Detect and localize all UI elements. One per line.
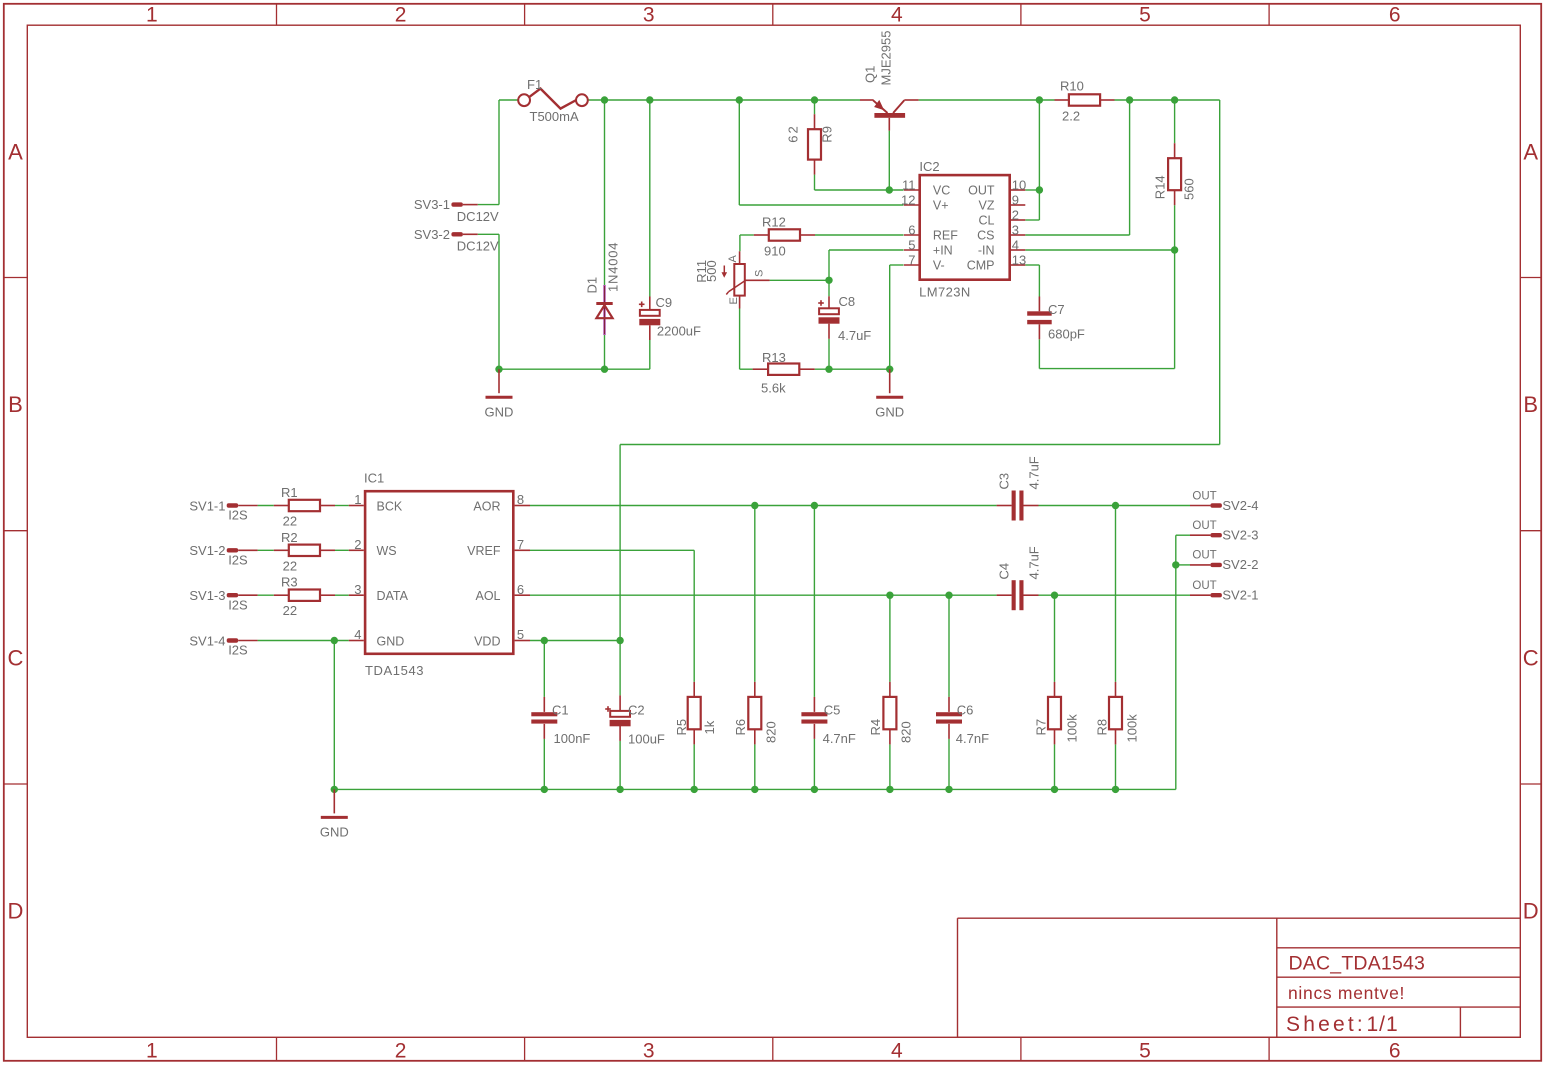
svg-text:I2S: I2S — [228, 597, 248, 612]
svg-text:1k: 1k — [702, 720, 717, 734]
svg-text:910: 910 — [764, 244, 786, 259]
svg-text:CL: CL — [979, 214, 995, 228]
node junction R10/R14 branch — [1171, 96, 1178, 103]
wire C2 branch — [619, 641, 621, 790]
svg-text:5: 5 — [517, 627, 524, 642]
node rail junction R8 — [1112, 786, 1119, 793]
svg-text:C: C — [1523, 645, 1539, 670]
wire R1 to IC1 pin 1 — [335, 505, 349, 507]
resistor R13 5.6k — [753, 350, 815, 396]
node rail junction C6 — [945, 786, 952, 793]
svg-text:4.7uF: 4.7uF — [838, 328, 871, 343]
svg-text:560: 560 — [1182, 178, 1197, 200]
svg-text:C5: C5 — [824, 703, 841, 718]
svg-text:A: A — [727, 255, 739, 263]
capacitor C8 4.7uF — [818, 294, 871, 343]
wire VREF pin 7 to R5 — [530, 550, 694, 682]
svg-text:500: 500 — [704, 260, 719, 282]
svg-text:12: 12 — [901, 193, 915, 208]
wire IC2 pin 13 CMP to C7 — [1025, 265, 1039, 297]
svg-text:OUT: OUT — [1192, 580, 1216, 592]
svg-text:SV3-2: SV3-2 — [414, 227, 450, 242]
wire REF R12 to IC2 pin 6 — [740, 235, 904, 251]
node junction AOR/R6 — [751, 502, 758, 509]
svg-text:A: A — [1523, 139, 1538, 164]
svg-text:DC12V: DC12V — [457, 209, 499, 224]
transistor Q1 MJE2955 — [860, 31, 919, 131]
svg-text:2: 2 — [395, 3, 407, 26]
svg-text:62: 62 — [786, 124, 801, 142]
capacitor C7 680pF — [1027, 297, 1085, 342]
resistor R6 820 — [733, 682, 779, 745]
svg-text:1/1: 1/1 — [1367, 1013, 1399, 1036]
wire SV1-4 to IC1 pin 4 — [258, 640, 349, 642]
wire SV1-3 to R3 — [258, 594, 274, 596]
wire AOR net pin 8 to C3 — [530, 505, 997, 507]
svg-text:VZ: VZ — [979, 199, 995, 213]
wire SV2-2 stub — [1176, 564, 1190, 566]
svg-text:11: 11 — [902, 178, 916, 193]
connector SV1-4 — [189, 633, 257, 657]
wire Q1 base down — [888, 131, 890, 190]
svg-text:6: 6 — [908, 223, 915, 238]
svg-text:R10: R10 — [1060, 79, 1084, 94]
svg-text:100k: 100k — [1125, 714, 1140, 743]
svg-text:R9: R9 — [820, 126, 835, 143]
svg-text:AOL: AOL — [475, 589, 500, 603]
capacitor C6 4.7nF — [936, 697, 989, 746]
svg-text:6: 6 — [517, 582, 524, 597]
resistor R9 62 — [786, 114, 835, 174]
svg-text:-IN: -IN — [978, 244, 995, 258]
svg-text:3: 3 — [643, 1039, 655, 1062]
wire R14 bottom lead — [1174, 205, 1176, 250]
wire VCC long feed to DAC section — [620, 100, 1220, 641]
IC1 TDA1543 — [349, 471, 530, 679]
connector SV2-3 — [1190, 520, 1259, 543]
capacitor C2 100uF — [605, 695, 665, 746]
svg-text:V+: V+ — [933, 199, 949, 213]
node VOUT junction at OUT pin branch — [1036, 96, 1043, 103]
title block — [958, 918, 1521, 1037]
svg-text:5: 5 — [1139, 1039, 1151, 1062]
wire R10 right to corner — [1115, 99, 1220, 101]
node VIN junction at R9 — [811, 96, 818, 103]
svg-text:VREF: VREF — [467, 544, 501, 558]
node rail junction R4 — [886, 786, 893, 793]
svg-text:R5: R5 — [674, 719, 689, 736]
wire R5 bottom — [693, 744, 695, 789]
svg-text:D: D — [8, 899, 24, 924]
svg-text:OUT: OUT — [1192, 520, 1216, 532]
node junction SV1-4/GND — [331, 637, 338, 644]
svg-text:C2: C2 — [628, 703, 645, 718]
svg-text:B: B — [1523, 392, 1538, 417]
svg-text:D: D — [1523, 899, 1539, 924]
svg-text:DAC_TDA1543: DAC_TDA1543 — [1289, 953, 1426, 975]
connector SV2-1 — [1190, 580, 1259, 603]
svg-text:4: 4 — [891, 3, 903, 26]
connector SV2-4 — [1190, 490, 1259, 513]
svg-text:10: 10 — [1012, 178, 1026, 193]
capacitor C5 4.7nF — [801, 697, 856, 746]
node junction AOL/R4 — [886, 592, 893, 599]
node ground junction at SV3-2/GND — [495, 366, 502, 373]
wire IC2 pin 4 -IN to R14 — [1025, 249, 1174, 251]
capacitor C1 100nF — [531, 697, 590, 746]
node rail junction C5 — [811, 786, 818, 793]
svg-text:LM723N: LM723N — [919, 285, 971, 300]
wire R14 top lead — [1174, 100, 1176, 143]
wire AOL net pin 6 to C4 — [530, 594, 997, 596]
svg-text:1: 1 — [146, 1039, 158, 1062]
wire R2 to IC1 pin 2 — [335, 549, 349, 551]
wire C4 to SV2-1 — [1039, 594, 1191, 596]
resistor R3 22 — [274, 575, 335, 619]
svg-text:C1: C1 — [552, 703, 569, 718]
svg-text:VDD: VDD — [474, 634, 500, 648]
svg-text:SV2-2: SV2-2 — [1222, 557, 1258, 572]
svg-text:A: A — [8, 139, 23, 164]
node VIN junction at V+ branch — [736, 96, 743, 103]
connector SV1-2 — [189, 543, 257, 567]
svg-text:R3: R3 — [281, 575, 298, 590]
trimmer R11 500 — [694, 251, 770, 308]
svg-text:1: 1 — [146, 3, 158, 26]
node junction VDD/C2 — [616, 637, 623, 644]
node junction AOR/C5 — [811, 502, 818, 509]
wire C6 branch — [948, 595, 950, 789]
svg-text:680pF: 680pF — [1048, 326, 1085, 341]
svg-text:nincs mentve!: nincs mentve! — [1288, 983, 1405, 1003]
ground GND1 — [485, 369, 514, 419]
svg-text:SV1-2: SV1-2 — [189, 543, 225, 558]
svg-text:820: 820 — [764, 721, 779, 743]
svg-text:7: 7 — [517, 537, 524, 552]
connector SV1-3 — [189, 588, 257, 612]
wire +12V from SV3-1 up to fuse — [478, 100, 499, 205]
node junction VDD/C1 — [541, 637, 548, 644]
svg-text:MJE2955: MJE2955 — [879, 31, 894, 86]
wire IC2 pin 3 CS to top rail — [1025, 100, 1129, 235]
capacitor C9 2200uF — [639, 295, 701, 340]
svg-text:F1: F1 — [527, 77, 542, 92]
svg-text:REF: REF — [933, 229, 958, 243]
svg-text:1N4004: 1N4004 — [606, 242, 621, 292]
svg-text:B: B — [8, 392, 23, 417]
wire R9 bottom to IC2 pin 11 — [815, 175, 904, 190]
wire ground drop from pin 4 — [333, 641, 335, 790]
svg-text:+IN: +IN — [933, 244, 953, 258]
svg-text:R7: R7 — [1034, 719, 1049, 736]
svg-text:C7: C7 — [1048, 302, 1065, 317]
resistor R7 100k — [1034, 682, 1080, 745]
svg-text:4: 4 — [354, 627, 361, 642]
capacitor C4 4.7uF — [997, 546, 1042, 610]
svg-text:OUT: OUT — [1192, 550, 1216, 562]
wire R7 branch — [1054, 595, 1056, 789]
svg-text:5.6k: 5.6k — [761, 381, 786, 396]
IC2 pin numbers — [901, 178, 1026, 268]
wire R11 wiper to junction — [770, 279, 829, 281]
svg-text:S: S — [754, 270, 766, 277]
wire IC2 pin 7 V- to ground — [890, 265, 904, 369]
resistor R2 22 — [274, 530, 335, 574]
svg-text:OUT: OUT — [968, 184, 995, 198]
svg-text:C9: C9 — [656, 295, 673, 310]
wire C9 branch — [649, 100, 651, 369]
wire C5 branch — [813, 506, 815, 790]
node junction Q1 base / R9 / VC — [886, 186, 893, 193]
svg-text:AOR: AOR — [473, 499, 500, 513]
ground GND3 — [320, 789, 349, 839]
node rail junction R5 — [691, 786, 698, 793]
svg-text:C6: C6 — [957, 703, 974, 718]
svg-text:OUT: OUT — [1192, 490, 1216, 502]
wire ground riser to SV2-2/SV2-3 — [1176, 535, 1190, 789]
resistor R4 820 — [868, 682, 914, 745]
svg-text:2: 2 — [395, 1039, 407, 1062]
svg-text:R1: R1 — [281, 485, 298, 500]
svg-text:IC1: IC1 — [364, 471, 384, 486]
wire C3 to SV2-4 — [1039, 505, 1191, 507]
wire bottom ground rail — [334, 788, 1176, 790]
node ground junction at D1 — [601, 366, 608, 373]
IC2 LM723N — [904, 159, 1025, 300]
svg-text:6: 6 — [1389, 3, 1401, 26]
svg-text:6: 6 — [1389, 1039, 1401, 1062]
svg-text:SV2-3: SV2-3 — [1222, 528, 1258, 543]
ground GND2 — [875, 369, 904, 419]
svg-text:4: 4 — [1012, 238, 1019, 253]
node rail junction R7 — [1051, 786, 1058, 793]
svg-text:4.7uF: 4.7uF — [1027, 546, 1042, 579]
wire IC2 pin 10 OUT to rail — [1025, 100, 1039, 190]
wire SV1-1 to R1 — [258, 505, 274, 507]
svg-text:TDA1543: TDA1543 — [365, 663, 424, 678]
svg-text:R8: R8 — [1095, 719, 1110, 736]
connector SV2-2 — [1190, 550, 1259, 573]
wire R13 right to GND rail — [815, 368, 890, 370]
wire fuse left lead — [499, 99, 519, 101]
resistor R14 560 — [1153, 143, 1197, 205]
svg-text:SV1-3: SV1-3 — [189, 588, 225, 603]
wire R3 to IC1 pin 3 — [335, 594, 349, 596]
resistor R5 1k — [674, 682, 717, 745]
connector SV3-2 — [414, 227, 499, 254]
wire VIN top rail (fuse to Q1 emitter) — [587, 99, 860, 101]
svg-text:C8: C8 — [839, 294, 856, 309]
svg-text:SV1-1: SV1-1 — [189, 498, 225, 513]
svg-text:1: 1 — [354, 492, 361, 507]
node junction OUT/CL — [1036, 186, 1043, 193]
svg-text:WS: WS — [377, 544, 397, 558]
node junction wiper/+IN/C8 — [825, 277, 832, 284]
wire C8 bottom lead — [828, 339, 830, 369]
wire SV3-2 to ground rail — [478, 234, 499, 369]
IC1 pin names — [377, 499, 501, 648]
svg-text:2: 2 — [354, 537, 361, 552]
svg-text:CMP: CMP — [967, 259, 995, 273]
wire IC2 pin 2 CL up to OUT — [1025, 190, 1039, 220]
wire R6 branch — [754, 506, 756, 790]
svg-text:9: 9 — [1012, 193, 1019, 208]
svg-text:3: 3 — [643, 3, 655, 26]
svg-text:100nF: 100nF — [554, 731, 591, 746]
svg-text:4.7nF: 4.7nF — [823, 731, 856, 746]
svg-text:CS: CS — [977, 229, 994, 243]
svg-text:R2: R2 — [281, 530, 298, 545]
wire V+ branch to IC2 pin 12 — [739, 100, 903, 205]
svg-text:E: E — [728, 297, 740, 304]
node rail junction GND3 — [331, 786, 338, 793]
svg-text:8: 8 — [517, 492, 524, 507]
wire C8 top lead — [828, 280, 830, 296]
svg-text:Q1: Q1 — [863, 66, 878, 83]
svg-text:22: 22 — [283, 603, 297, 618]
IC1 pin numbers — [354, 492, 524, 642]
svg-text:22: 22 — [283, 514, 297, 529]
svg-text:I2S: I2S — [228, 643, 248, 658]
wire VDD pin5 to C1/C2 — [530, 640, 620, 642]
node rail junction C2 — [616, 786, 623, 793]
svg-text:22: 22 — [283, 558, 297, 573]
node junction SV2-2 — [1172, 561, 1179, 568]
svg-text:D1: D1 — [585, 277, 600, 294]
fuse F1 — [518, 77, 588, 124]
svg-text:SV2-1: SV2-1 — [1222, 588, 1258, 603]
wire R9 top lead — [814, 100, 816, 114]
svg-text:DC12V: DC12V — [457, 239, 499, 254]
resistor R10 2.2 — [1055, 79, 1115, 124]
svg-text:4.7nF: 4.7nF — [956, 731, 989, 746]
connector SV3-1 — [414, 197, 499, 224]
svg-text:C3: C3 — [997, 473, 1012, 490]
wire -IN down and left to C7 — [1039, 250, 1174, 369]
svg-text:SV1-4: SV1-4 — [189, 633, 225, 648]
svg-text:2: 2 — [1012, 208, 1019, 223]
svg-text:IC2: IC2 — [919, 159, 939, 174]
svg-text:C4: C4 — [997, 563, 1012, 580]
svg-text:BCK: BCK — [377, 499, 403, 513]
node VIN junction at D1 — [601, 96, 608, 103]
svg-text:GND: GND — [320, 825, 349, 840]
svg-text:100k: 100k — [1065, 714, 1080, 743]
svg-text:R13: R13 — [762, 350, 786, 365]
svg-text:R4: R4 — [868, 719, 883, 736]
wire D1 branch — [604, 100, 606, 369]
svg-text:3: 3 — [1012, 223, 1019, 238]
svg-text:DATA: DATA — [377, 589, 409, 603]
svg-text:13: 13 — [1012, 253, 1026, 268]
svg-text:820: 820 — [899, 721, 914, 743]
wire C7 bottom lead — [1038, 339, 1040, 368]
svg-text:4.7uF: 4.7uF — [1027, 456, 1042, 489]
svg-text:I2S: I2S — [228, 508, 248, 523]
svg-text:2.2: 2.2 — [1062, 108, 1080, 123]
wire ground rail D1/C9 — [499, 368, 650, 370]
capacitor C3 4.7uF — [997, 456, 1042, 520]
svg-text:3: 3 — [354, 582, 361, 597]
svg-text:GND: GND — [485, 405, 514, 420]
svg-text:C: C — [8, 645, 24, 670]
wire IC2 pin 5 +IN left and down — [829, 250, 904, 280]
resistor R1 22 — [274, 485, 335, 529]
node junction AOL/C6 — [945, 592, 952, 599]
node rail junction C1 — [541, 786, 548, 793]
svg-text:100uF: 100uF — [628, 732, 665, 747]
svg-text:Sheet:: Sheet: — [1286, 1013, 1366, 1036]
svg-text:GND: GND — [377, 634, 405, 648]
diode D1 1N4004 — [585, 242, 621, 335]
wire R11 bottom to R13 — [740, 309, 753, 370]
svg-text:I2S: I2S — [228, 552, 248, 567]
node junction -IN/R14/C7 — [1171, 246, 1178, 253]
wire R8 branch — [1115, 506, 1117, 790]
svg-text:V-: V- — [933, 259, 945, 273]
resistor R12 910 — [754, 215, 815, 259]
svg-text:SV2-4: SV2-4 — [1222, 498, 1258, 513]
node junction V-/GND2 — [886, 366, 893, 373]
wire SV1-2 to R2 — [258, 549, 274, 551]
node junction C4/R7 — [1051, 592, 1058, 599]
svg-text:5: 5 — [1139, 3, 1151, 26]
resistor R8 100k — [1095, 682, 1140, 745]
svg-text:SV3-1: SV3-1 — [414, 197, 450, 212]
node junction R10/CS branch — [1126, 96, 1133, 103]
svg-text:2200uF: 2200uF — [657, 324, 701, 339]
wire Q1 collector to R10 — [919, 99, 1055, 101]
node junction C3/R8 — [1112, 502, 1119, 509]
node junction C8/R13 — [825, 366, 832, 373]
svg-text:4: 4 — [891, 1039, 903, 1062]
svg-text:R6: R6 — [733, 719, 748, 736]
svg-text:7: 7 — [908, 253, 915, 268]
node rail junction R6 — [751, 786, 758, 793]
svg-text:GND: GND — [875, 405, 904, 420]
svg-text:T500mA: T500mA — [530, 109, 579, 124]
svg-text:R12: R12 — [762, 215, 786, 230]
svg-text:5: 5 — [908, 238, 915, 253]
IC2 pin names — [933, 184, 995, 273]
connector SV1-1 — [189, 498, 257, 522]
wire R4 branch — [889, 595, 891, 789]
svg-text:VC: VC — [933, 184, 950, 198]
svg-text:R14: R14 — [1153, 175, 1168, 199]
node VIN junction at C9 — [646, 96, 653, 103]
wire C1 branch — [543, 641, 545, 790]
